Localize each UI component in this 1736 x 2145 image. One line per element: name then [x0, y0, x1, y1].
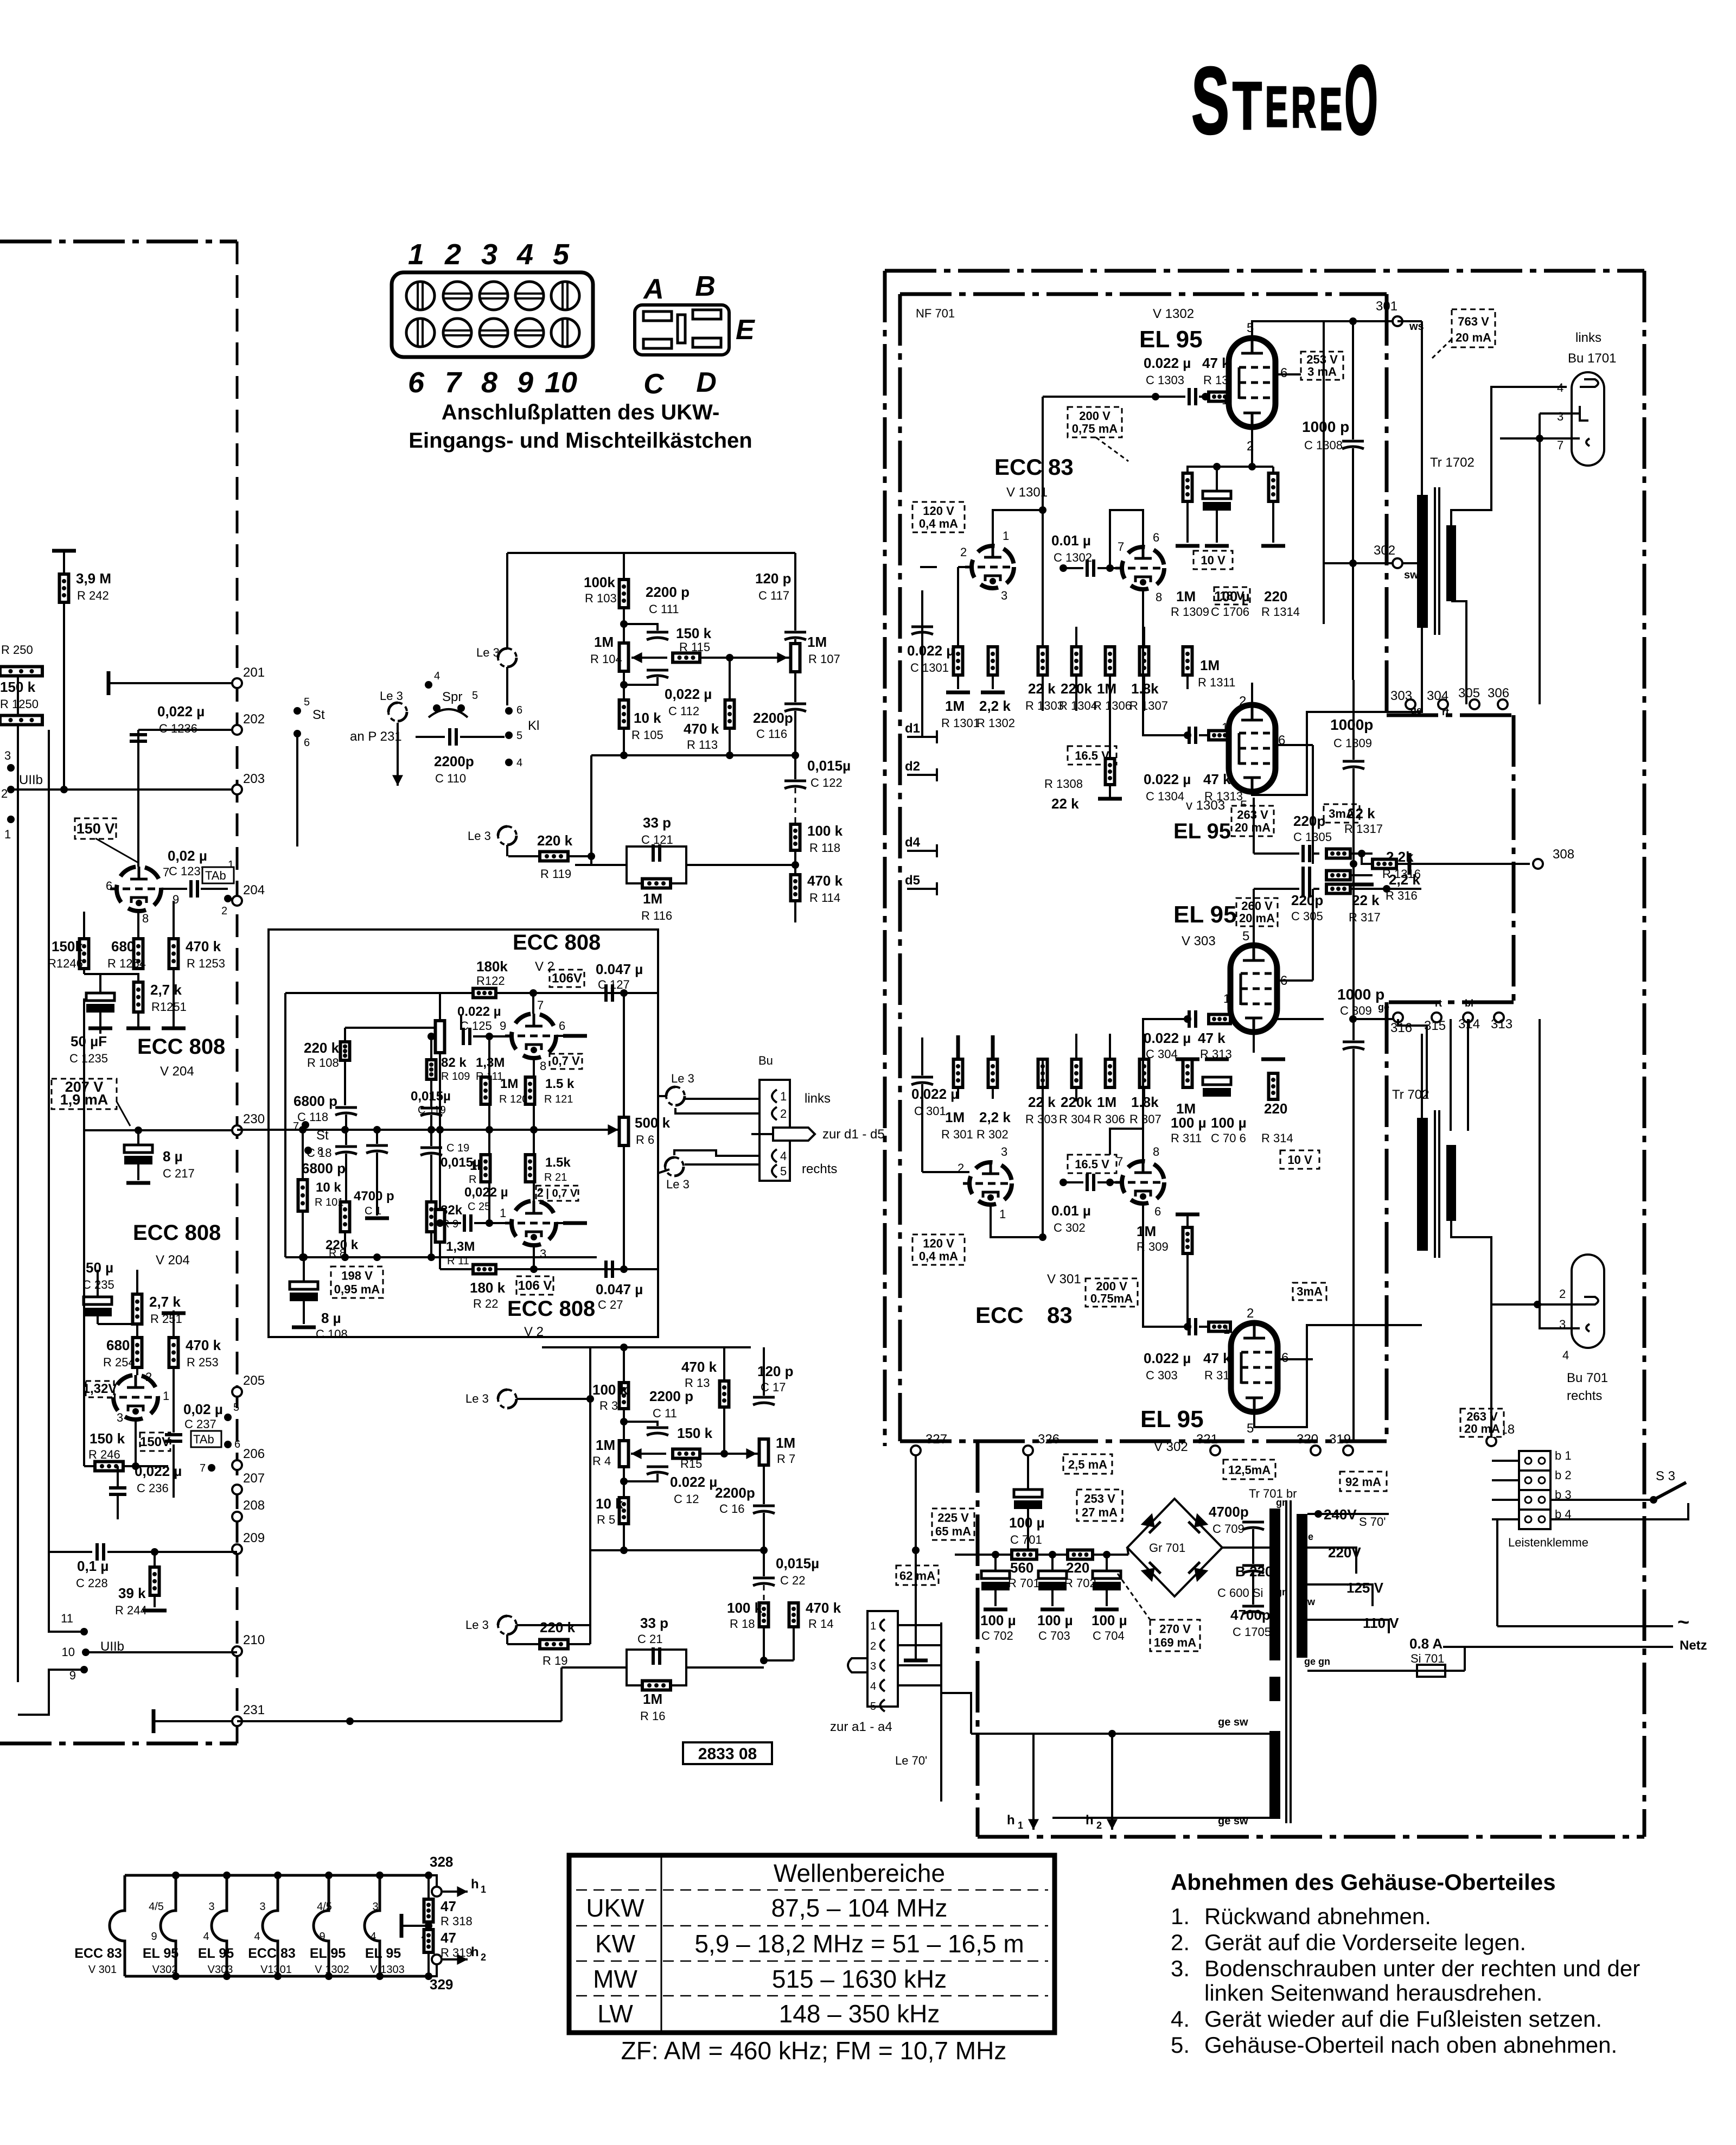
wire [488, 1036, 490, 1077]
svg-text:Le 3: Le 3 [468, 829, 491, 843]
bridge rectifier Gr701 outline [1127, 1499, 1222, 1596]
svg-text:83: 83 [1048, 454, 1074, 480]
svg-text:Bu 701: Bu 701 [1567, 1371, 1608, 1385]
triode V1301 a [965, 546, 1014, 588]
terminal 306 [1498, 699, 1508, 709]
wire [506, 553, 508, 648]
h1 arrow out [443, 1886, 468, 1897]
junction [1349, 1015, 1357, 1023]
svg-text:200 V: 200 V [1079, 409, 1110, 423]
svg-text:329: 329 [430, 1976, 453, 1993]
outer box border bottom [978, 1835, 1644, 1839]
svg-text:R 111: R 111 [476, 1071, 503, 1083]
capacitor C18 6800p [335, 1147, 357, 1154]
svg-text:R 3: R 3 [599, 1399, 618, 1412]
svg-text:C 1237: C 1237 [169, 864, 207, 878]
screw terminal pin 9 [515, 319, 544, 347]
svg-text:4: 4 [203, 1931, 209, 1943]
resistor R1313 47k [1209, 731, 1230, 740]
stub R302 [992, 1047, 994, 1059]
svg-text:R 104: R 104 [590, 652, 622, 666]
svg-text:V302: V302 [152, 1964, 178, 1976]
svg-text:100 µ: 100 µ [1009, 1514, 1045, 1531]
svg-text:3: 3 [1001, 589, 1007, 602]
junction [620, 1546, 628, 1554]
junction [299, 1253, 307, 1261]
svg-text:C 110: C 110 [435, 772, 466, 785]
resistor R 302 2,2k [988, 1059, 998, 1087]
stub R301 b [957, 1087, 959, 1099]
potentiometer R104 1M [620, 643, 629, 671]
wire [1313, 852, 1319, 855]
svg-text:10: 10 [545, 366, 577, 399]
transformer Tr1702 secondary [1446, 525, 1456, 601]
terminal 327 [911, 1446, 921, 1455]
svg-text:C 302: C 302 [1054, 1221, 1086, 1234]
junction [530, 1265, 538, 1273]
svg-text:Le 70': Le 70' [895, 1754, 927, 1767]
block wire [1492, 1499, 1519, 1501]
leader [1118, 1574, 1150, 1620]
svg-text:R 242: R 242 [77, 589, 109, 602]
socket pin 1 [772, 1090, 777, 1103]
wire [533, 1182, 535, 1201]
capacitor C1308 1000p [1342, 441, 1364, 449]
svg-text:680: 680 [111, 938, 135, 954]
svg-text:zur d1 - d5: zur d1 - d5 [822, 1127, 885, 1142]
St wire down [296, 734, 298, 846]
svg-text:1M: 1M [643, 1691, 662, 1707]
svg-text:2: 2 [145, 1370, 152, 1384]
diode [1141, 1562, 1161, 1582]
wire [1143, 675, 1145, 689]
svg-text:4700 p: 4700 p [354, 1189, 394, 1204]
terminal 314 [1463, 1013, 1473, 1022]
svg-text:R 13: R 13 [685, 1376, 710, 1390]
svg-text:R 303: R 303 [1025, 1112, 1057, 1126]
potentiometer R7 1M [759, 1439, 769, 1465]
table row line [576, 1925, 1048, 1927]
transformer Tr1702 primary [1417, 495, 1428, 628]
plug pin bulb [848, 1658, 867, 1672]
svg-text:R 1303: R 1303 [1025, 699, 1064, 712]
electrolytic C1706 100u [1203, 491, 1231, 511]
transformer Tr701 heater winding [1269, 1731, 1280, 1819]
wire [623, 1347, 625, 1383]
svg-text:8: 8 [1153, 1145, 1159, 1159]
loop C121/R116 [627, 846, 686, 883]
resistor R309 1M [1183, 1227, 1192, 1253]
junction [620, 752, 628, 759]
svg-text:6: 6 [408, 366, 425, 399]
junction [7, 816, 15, 823]
arrow into R7 [730, 1448, 757, 1459]
terminal 321 [1210, 1446, 1220, 1455]
svg-text:100 k: 100 k [807, 823, 843, 839]
svg-text:12,5mA: 12,5mA [1228, 1463, 1271, 1477]
heater node top [274, 1872, 282, 1879]
svg-text:C 21: C 21 [637, 1632, 662, 1646]
dashed link [763, 1585, 765, 1641]
svg-text:C 117: C 117 [758, 589, 789, 602]
grid lead [958, 566, 972, 568]
svg-text:S: S [1191, 48, 1229, 154]
wire [763, 1627, 765, 1660]
svg-text:326: 326 [1038, 1432, 1060, 1447]
capacitor C122 0.015u [784, 781, 806, 788]
svg-text:Le 3: Le 3 [671, 1072, 694, 1085]
wire [568, 855, 591, 857]
junction [760, 1546, 768, 1554]
resistor R19 220k [540, 1640, 568, 1649]
terminal 204 [232, 896, 242, 906]
wire [1252, 466, 1273, 468]
svg-text:V 301: V 301 [1047, 1272, 1081, 1287]
resistor R 303 22k [1038, 1059, 1048, 1087]
STEREO logo [1191, 44, 1378, 155]
svg-text:5.: 5. [1171, 2032, 1190, 2058]
svg-text:C 22: C 22 [780, 1574, 805, 1587]
junction [1248, 463, 1256, 470]
inner NF701 box left [898, 294, 902, 1441]
wire [794, 755, 796, 779]
junction [224, 1414, 232, 1421]
svg-text:8: 8 [1156, 590, 1162, 604]
svg-text:2.: 2. [1171, 1930, 1190, 1955]
svg-text:7: 7 [537, 998, 544, 1012]
wire [723, 1407, 725, 1454]
wire [920, 566, 937, 568]
tap 125V [1307, 1584, 1373, 1606]
outer box border top [885, 269, 1644, 273]
svg-text:100 µ: 100 µ [1211, 1115, 1247, 1131]
resistor R9 82k [427, 1202, 436, 1232]
tick [936, 844, 938, 857]
wire [764, 1659, 794, 1662]
stub R304 [1075, 1034, 1077, 1059]
potentiometer R6 500k [620, 1117, 629, 1145]
anode wire V302 [1254, 1325, 1422, 1427]
wire [1307, 1670, 1417, 1672]
connector zur a1-a4 [867, 1611, 898, 1707]
terminal [232, 1716, 242, 1726]
capacitor C110 2200p [450, 728, 456, 746]
svg-text:C 18: C 18 [307, 1146, 331, 1160]
resistor R122 180k [473, 989, 496, 998]
svg-text:R: R [1291, 75, 1316, 139]
wire d1 up [921, 590, 923, 737]
svg-text:304: 304 [1427, 689, 1448, 703]
resistor R5 10k [620, 1498, 629, 1524]
svg-text:2,2 k: 2,2 k [979, 1109, 1011, 1125]
svg-text:4: 4 [516, 238, 533, 271]
network bottom rail [285, 1256, 597, 1258]
wire [430, 1079, 432, 1106]
svg-text:1: 1 [500, 1206, 506, 1220]
svg-text:rechts: rechts [802, 1162, 837, 1176]
resistor R13 470k [720, 1381, 729, 1407]
wire pin4 [674, 1150, 759, 1156]
plug pin 3 [773, 1128, 815, 1141]
svg-text:1000p: 1000p [1330, 716, 1373, 733]
svg-text:R 120: R 120 [499, 1093, 528, 1105]
svg-text:R 313: R 313 [1200, 1047, 1232, 1061]
svg-text:87,5 – 104 MHz: 87,5 – 104 MHz [771, 1894, 948, 1922]
terminal [1393, 558, 1402, 568]
terminal [232, 1512, 242, 1522]
svg-text:0.022 µ: 0.022 µ [911, 1086, 959, 1102]
svg-text:203: 203 [243, 772, 265, 786]
B+ rail [955, 1554, 1128, 1556]
svg-text:0,015µ: 0,015µ [411, 1089, 451, 1104]
svg-text:zur a1 - a4: zur a1 - a4 [830, 1720, 892, 1734]
resistor R 1301 1M [954, 647, 963, 675]
chassis bar [400, 1914, 404, 1938]
wire [1403, 562, 1422, 564]
wire [1397, 320, 1422, 322]
junction [1184, 731, 1191, 739]
ground [904, 1659, 928, 1663]
transformer Tr702 core [1434, 1110, 1436, 1258]
svg-text:4/5: 4/5 [317, 1901, 332, 1913]
wire [589, 1347, 591, 1399]
callout 3mA upper [1324, 804, 1360, 823]
wire [921, 1038, 923, 1075]
speaker wire 2 [1451, 601, 1466, 695]
svg-text:65 mA: 65 mA [935, 1524, 971, 1538]
svg-text:sw: sw [1302, 1596, 1316, 1607]
terminal 305 [1470, 699, 1479, 709]
svg-text:33 p: 33 p [643, 814, 671, 831]
wire [1450, 1019, 1452, 1131]
svg-text:198 V: 198 V [341, 1269, 373, 1283]
svg-text:1: 1 [1223, 992, 1230, 1005]
wire 231 right [237, 1720, 561, 1722]
left edge wire [17, 673, 19, 1682]
wire [1350, 852, 1373, 855]
svg-text:0.75mA: 0.75mA [1090, 1291, 1133, 1305]
svg-text:2: 2 [1559, 1287, 1566, 1301]
electrolytic C 704 100u [1093, 1571, 1121, 1590]
svg-text:220 k: 220 k [540, 1619, 576, 1635]
svg-text:LW: LW [597, 2000, 633, 2028]
wire [488, 1130, 490, 1155]
svg-text:0,02 µ: 0,02 µ [168, 848, 207, 864]
block wire [1492, 1460, 1519, 1462]
svg-text:Netz: Netz [1680, 1638, 1707, 1653]
svg-text:1.5k: 1.5k [545, 1155, 571, 1170]
coil Le3 out2 [665, 1157, 684, 1176]
anode stub [557, 1035, 575, 1037]
svg-text:470 k: 470 k [681, 1359, 717, 1375]
table outline [569, 1855, 1055, 2033]
terminal block b2 [1519, 1471, 1550, 1490]
wire [344, 1232, 346, 1257]
left edge wire 2 [48, 730, 50, 1617]
svg-text:C 11: C 11 [653, 1406, 677, 1420]
wire [506, 667, 508, 705]
wire [1272, 501, 1274, 543]
wire [533, 1104, 535, 1130]
junction [1314, 1510, 1322, 1518]
wire [173, 1310, 175, 1338]
wire to R111 [345, 1027, 440, 1029]
svg-text:R 118: R 118 [809, 841, 840, 855]
svg-text:204: 204 [243, 883, 265, 898]
svg-text:V 2: V 2 [524, 1325, 544, 1339]
wire [1254, 852, 1299, 855]
wire [1097, 567, 1121, 569]
outer box border right [1643, 271, 1646, 1837]
wire [376, 1153, 378, 1215]
stub R307 b [1143, 1087, 1145, 1102]
wire [430, 1115, 432, 1130]
left section border right (dashed) [236, 241, 239, 1743]
svg-text:4.: 4. [1171, 2006, 1190, 2032]
svg-text:R15: R15 [680, 1457, 702, 1471]
wire [345, 1154, 347, 1202]
svg-text:Bodenschrauben unter der recht: Bodenschrauben unter der rechten und der [1204, 1956, 1640, 1981]
ground [1041, 1608, 1064, 1612]
svg-text:ECC 83: ECC 83 [248, 1946, 296, 1961]
wire to pin2 [675, 1108, 759, 1113]
transformer Tr701 winding2 [1297, 1514, 1307, 1658]
St contact 5 [293, 707, 301, 715]
svg-text:C 303: C 303 [1146, 1369, 1178, 1382]
wire [137, 1164, 139, 1180]
svg-text:20 mA: 20 mA [1239, 911, 1275, 925]
callout 12.5mA [1223, 1460, 1275, 1479]
svg-text:0.01 µ: 0.01 µ [1051, 1202, 1091, 1219]
screen bus upper [1312, 745, 1314, 864]
svg-text:ZF: AM = 460 kHz; FM = 10: ZF: AM = 460 kHz; FM = 10,7 MHz [621, 2036, 1007, 2065]
svg-text:253 V: 253 V [1084, 1492, 1115, 1506]
svg-text:206: 206 [243, 1447, 265, 1461]
anode wire V303 up [1253, 889, 1255, 946]
svg-text:5: 5 [472, 690, 478, 702]
svg-text:1: 1 [4, 828, 11, 841]
slot A [643, 311, 672, 321]
wire [686, 864, 795, 866]
svg-text:Le 3: Le 3 [476, 646, 500, 659]
svg-text:R 311: R 311 [1171, 1131, 1202, 1145]
output socket Bu [759, 1080, 790, 1181]
anode wire V1301a [993, 510, 1043, 545]
wire [439, 1053, 441, 1130]
stub R301 [957, 1047, 959, 1059]
vertical bus 2495 lower [1352, 448, 1354, 680]
callout 0.7V [550, 1054, 582, 1069]
svg-text:V 1301: V 1301 [1006, 485, 1048, 500]
primary feed Tr1702 [1421, 321, 1423, 495]
svg-text:8: 8 [540, 1059, 546, 1073]
end bar 231 [152, 1709, 156, 1733]
wire [429, 1875, 437, 1887]
resistor R242 3.9M [60, 574, 69, 602]
wire [1421, 628, 1423, 704]
junction [1349, 317, 1357, 325]
resistor R1246 150k [80, 939, 89, 969]
heater node top [325, 1872, 333, 1879]
svg-text:ECC 83: ECC 83 [74, 1946, 122, 1961]
svg-text:3: 3 [540, 1247, 546, 1261]
svg-text:ECC: ECC [975, 1302, 1024, 1328]
svg-text:R 1317: R 1317 [1344, 822, 1383, 836]
svg-text:100 k: 100 k [592, 1382, 628, 1398]
pin6 stub V1303 [1275, 744, 1313, 746]
screw terminal pin 8 [480, 319, 508, 347]
svg-text:106V: 106V [552, 971, 582, 986]
svg-text:Abnehmen des Gehäuse-Oberteile: Abnehmen des Gehäuse-Oberteiles [1171, 1869, 1556, 1895]
svg-text:R 21: R 21 [544, 1172, 567, 1183]
wire [921, 590, 923, 625]
svg-text:Eingangs- und Mischteilkästche: Eingangs- und Mischteilkästchen [409, 429, 752, 453]
junction [135, 1126, 142, 1134]
svg-text:1M: 1M [596, 1437, 615, 1453]
heater wire top [971, 1733, 1269, 1735]
svg-text:Gehäuse-Oberteil nach oben abn: Gehäuse-Oberteil nach oben abnehmen. [1204, 2032, 1617, 2058]
wire [429, 1964, 437, 1976]
svg-text:5: 5 [553, 238, 570, 271]
block wire [1492, 1518, 1519, 1520]
inner NF701 box right upper [1385, 294, 1389, 715]
socket contact2 [1580, 406, 1588, 421]
svg-text:180k: 180k [476, 958, 508, 975]
svg-text:0,022 µ: 0,022 µ [464, 1185, 508, 1200]
svg-text:V 204: V 204 [156, 1253, 190, 1268]
svg-text:62 mA: 62 mA [899, 1569, 935, 1583]
stub R1307 b [1143, 689, 1145, 711]
slot E center [678, 315, 685, 343]
svg-text:R 121: R 121 [544, 1093, 573, 1105]
wire to 308 [1421, 863, 1530, 865]
svg-text:an P 231: an P 231 [350, 729, 402, 744]
wire C27 to Le3 lower [658, 1169, 669, 1269]
capacitor C1705 4700p [1242, 1606, 1264, 1614]
capacitor C236 [109, 1488, 126, 1494]
svg-text:47 k: 47 k [1202, 355, 1230, 371]
svg-text:4: 4 [1557, 381, 1563, 394]
svg-text:R 19: R 19 [542, 1654, 567, 1667]
diode [1141, 1513, 1161, 1533]
svg-text:2200p: 2200p [753, 710, 793, 726]
wire [173, 1367, 175, 1389]
resistor R121 1.5k [526, 1077, 535, 1104]
socket contact b3 [1586, 1324, 1590, 1332]
svg-text:C 709: C 709 [1212, 1522, 1244, 1536]
svg-text:R 1302: R 1302 [976, 716, 1015, 730]
svg-text:C 703: C 703 [1038, 1629, 1070, 1643]
St contact 8 [304, 1147, 312, 1154]
wire [173, 1389, 175, 1433]
wire [83, 969, 85, 974]
transformer Tr702 core2 [1438, 1110, 1440, 1258]
wire [1350, 874, 1373, 876]
wire [173, 1444, 175, 1498]
slot B [693, 310, 721, 319]
svg-text:5: 5 [233, 1402, 239, 1414]
wire [623, 1145, 625, 1269]
junction [427, 1253, 435, 1261]
resistor R 306 1M [1106, 1059, 1115, 1087]
callout 150V [75, 818, 116, 839]
terminal 304 [1438, 699, 1448, 709]
svg-text:5: 5 [516, 730, 522, 742]
wire [1352, 680, 1355, 760]
svg-text:R 1314: R 1314 [1261, 605, 1300, 619]
svg-text:47 k: 47 k [1198, 1030, 1226, 1046]
svg-text:MW: MW [593, 1965, 637, 1993]
